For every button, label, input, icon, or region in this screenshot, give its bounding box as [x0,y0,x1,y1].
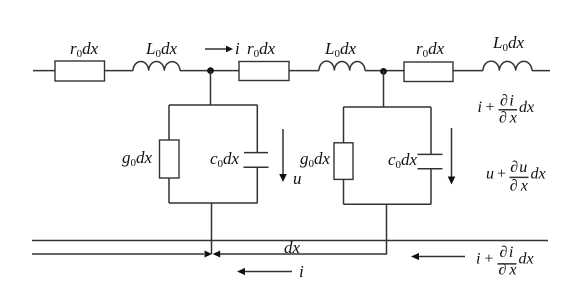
svg-text:dx: dx [284,238,301,257]
svg-text:r0dx: r0dx [70,39,99,60]
svg-text:dx: dx [531,165,546,182]
svg-text:c0dx: c0dx [210,149,240,170]
svg-text:u: u [293,169,302,188]
svg-text:r0dx: r0dx [247,39,276,60]
svg-text:∂u: ∂u [510,159,527,176]
svg-text:u: u [486,165,494,182]
svg-text:dx: dx [519,250,534,267]
svg-text:∂x: ∂x [499,109,517,126]
svg-text:i: i [478,99,482,116]
svg-text:∂x: ∂x [510,178,528,195]
svg-text:r0dx: r0dx [416,39,445,60]
svg-text:L0dx: L0dx [324,39,356,60]
svg-text:i: i [476,250,480,267]
svg-text:c0dx: c0dx [388,150,418,171]
svg-text:+: + [485,99,496,116]
svg-text:g0dx: g0dx [300,149,331,170]
svg-text:∂i: ∂i [500,92,514,109]
svg-text:+: + [483,250,494,267]
svg-text:L0dx: L0dx [145,39,177,60]
svg-text:i: i [299,262,304,281]
svg-text:i: i [235,39,240,58]
svg-text:g0dx: g0dx [122,148,153,169]
svg-text:∂i: ∂i [500,244,514,261]
svg-text:L0dx: L0dx [492,33,524,54]
svg-text:dx: dx [519,99,534,116]
svg-text:+: + [496,165,507,182]
